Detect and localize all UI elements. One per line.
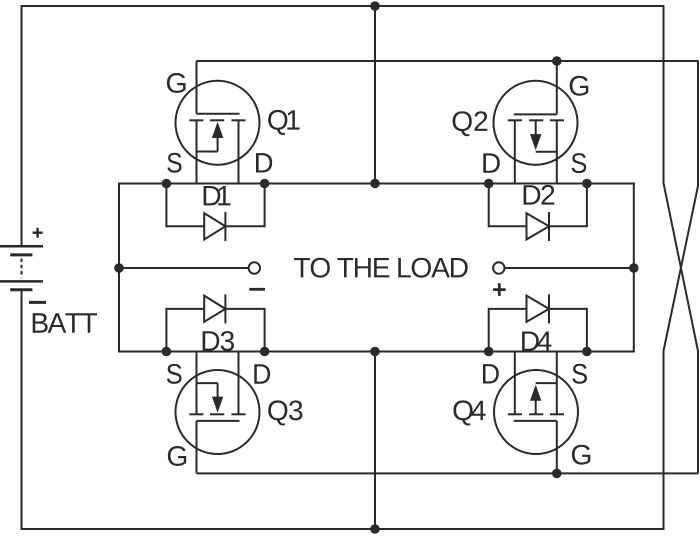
node S3 xyxy=(162,347,172,357)
label D1 xyxy=(204,186,231,205)
terminal left load xyxy=(249,262,260,273)
wire left battery lead lower xyxy=(21,290,23,530)
label Q4 xyxy=(453,400,485,425)
node D2 anode xyxy=(484,179,494,189)
transistor Q3 xyxy=(176,352,260,474)
wire right crossover line A xyxy=(664,5,699,473)
diode D3 xyxy=(166,294,264,351)
wire load right xyxy=(505,267,634,269)
label G_Q4 xyxy=(572,445,590,465)
node D3 cathode xyxy=(260,347,270,357)
node D1 cathode xyxy=(260,179,270,189)
wire left battery lead upper xyxy=(21,5,23,246)
wire center vertical lower xyxy=(374,352,376,530)
wire center vertical upper xyxy=(374,6,376,184)
node load left xyxy=(114,263,124,273)
battery BATT xyxy=(0,246,43,289)
transistor Q2 body arrow xyxy=(530,134,541,150)
label S_Q4 xyxy=(572,364,587,384)
label D2 xyxy=(524,185,555,205)
label G_Q2 xyxy=(570,76,589,96)
transistor Q2 xyxy=(494,61,578,184)
diode D4 xyxy=(489,294,587,351)
wire row upper S-D bus xyxy=(119,183,635,185)
label S_Q3 xyxy=(167,364,182,384)
label D_Q2 xyxy=(483,153,500,172)
label G_Q3 xyxy=(168,446,186,466)
wire load left xyxy=(119,267,249,269)
label BATT xyxy=(33,313,97,332)
load plus sign xyxy=(493,283,506,296)
battery plus sign xyxy=(33,228,43,238)
label Q3 xyxy=(268,400,302,425)
label S_Q1 xyxy=(167,153,181,173)
label G_Q1 xyxy=(167,73,186,93)
node load right xyxy=(629,263,639,273)
label D3 xyxy=(203,331,234,351)
battery minus sign xyxy=(29,301,46,304)
terminal right load xyxy=(493,262,504,273)
node S2 xyxy=(582,179,592,189)
node S4 xyxy=(582,347,592,357)
wire bottom rail xyxy=(21,528,665,530)
wire top gate rail xyxy=(197,60,699,62)
node bottom rail junction xyxy=(370,524,380,534)
label D4 xyxy=(522,332,551,351)
node top rail junction xyxy=(370,1,380,11)
wire right crossover line B xyxy=(664,61,699,530)
node upper bus center xyxy=(370,179,380,189)
wire row lower S-D bus xyxy=(119,351,635,353)
wire right column xyxy=(633,183,635,353)
load minus sign xyxy=(249,288,265,291)
wire bottom gate rail xyxy=(197,472,699,474)
diode D2 xyxy=(489,184,587,242)
label LOAD xyxy=(294,258,468,278)
transistor Q1 xyxy=(176,61,260,184)
label Q1 xyxy=(268,110,299,135)
wire left column xyxy=(118,183,120,353)
transistor Q1 body arrow xyxy=(212,122,223,138)
label D_Q4 xyxy=(483,364,499,383)
transistor Q4 xyxy=(494,352,578,474)
diode D1 xyxy=(166,184,264,242)
node S1 xyxy=(162,179,172,189)
node bottom gate rail junction xyxy=(552,469,562,479)
wire top rail xyxy=(21,5,665,7)
label Q2 xyxy=(453,111,488,136)
transistor Q4 body arrow xyxy=(530,385,541,401)
label D_Q3 xyxy=(254,364,270,383)
transistor Q3 body arrow xyxy=(212,397,223,413)
node D4 anode xyxy=(484,347,494,357)
node top gate rail junction xyxy=(552,56,562,66)
node lower bus center xyxy=(370,347,380,357)
label S_Q2 xyxy=(572,153,587,173)
label D_Q1 xyxy=(256,153,272,172)
